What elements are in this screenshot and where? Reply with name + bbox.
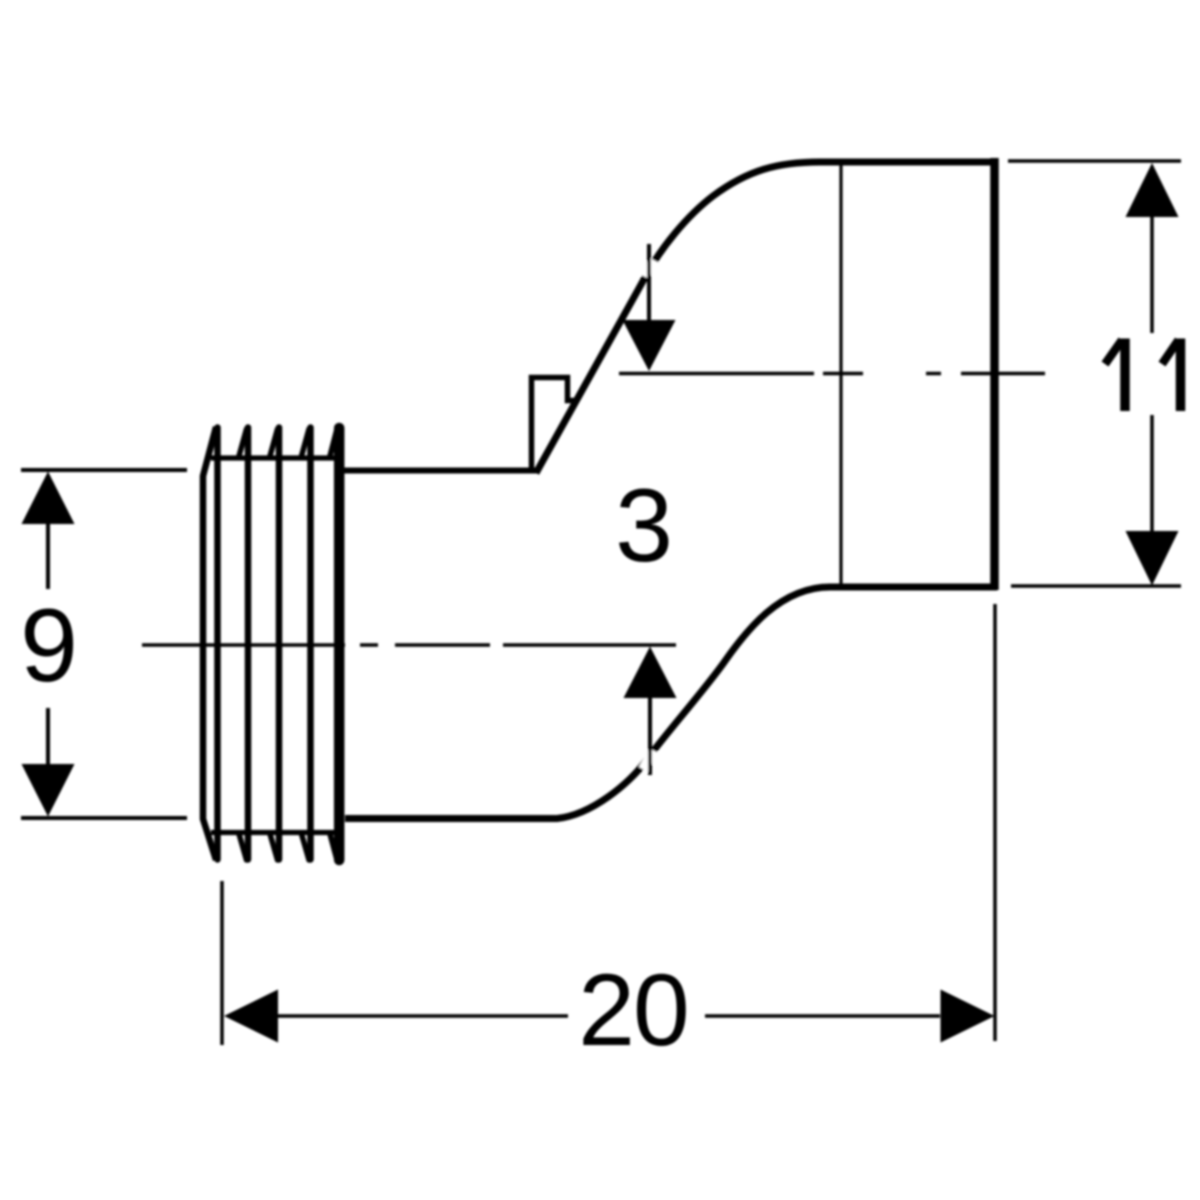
svg-text:3: 3: [615, 468, 673, 584]
svg-text:20: 20: [578, 953, 687, 1067]
svg-text:9: 9: [20, 588, 78, 704]
